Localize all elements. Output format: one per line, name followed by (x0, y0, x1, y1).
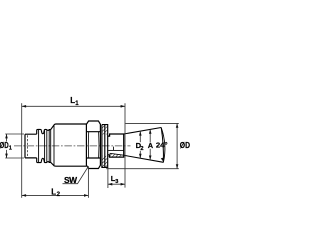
svg-text:1: 1 (9, 146, 12, 152)
plug nipple tip (25, 134, 37, 158)
body sleeve (51, 124, 87, 166)
step collars (47, 130, 51, 163)
lock-ball groove (41, 130, 44, 161)
ridge ring (44, 129, 47, 162)
nipple bore hidden line (26, 135, 28, 157)
dimension L1 top (21, 103, 23, 198)
cone mouth arc (161, 128, 163, 163)
seal washer (sectioned) (102, 125, 108, 168)
svg-text:ØD: ØD (0, 142, 9, 150)
svg-text:L: L (51, 187, 56, 196)
dimension A (149, 129, 151, 160)
swivel nut with internal cone (half section) (108, 134, 124, 157)
dimension L3 bottom right (107, 168, 109, 188)
flange ring (37, 129, 42, 162)
centerline (14, 145, 131, 147)
hex nut SW (86, 121, 100, 169)
dimension D2 (139, 131, 141, 158)
dimension OD right (106, 123, 179, 168)
24-degree cone flare lines (124, 128, 162, 135)
svg-text:3: 3 (115, 179, 118, 185)
svg-text:24°: 24° (156, 140, 168, 149)
svg-text:2: 2 (140, 146, 143, 152)
dimension OD1 left (5, 134, 24, 158)
dimension L2 bottom (87, 166, 89, 198)
svg-text:ØD: ØD (180, 140, 190, 150)
svg-text:A: A (148, 141, 154, 150)
